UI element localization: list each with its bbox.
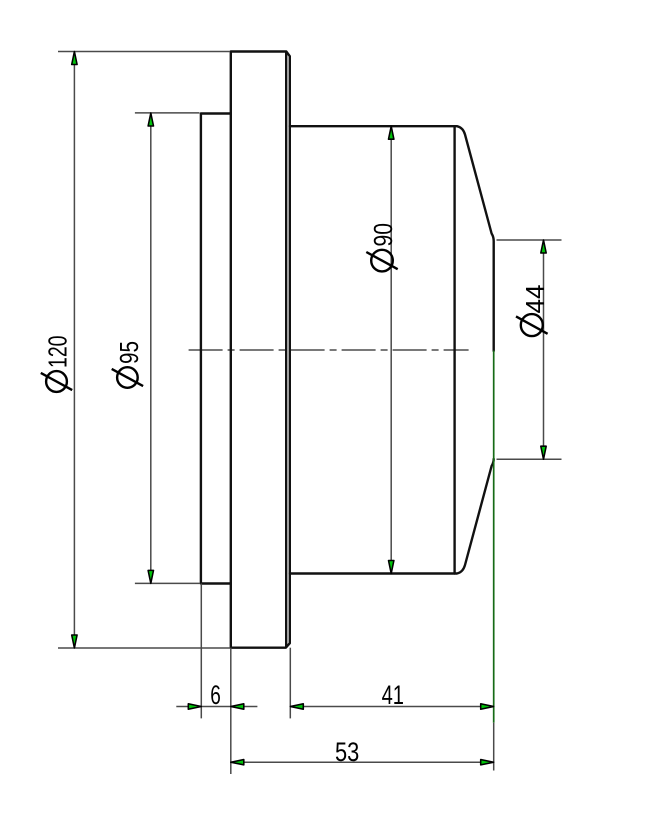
arrow 53 right (inside, pointing right) xyxy=(481,760,494,765)
dimension 6: extension lines below part xyxy=(176,584,257,775)
dimension Ø120: dimension line xyxy=(73,52,75,649)
svg-text:53: 53 xyxy=(335,737,359,767)
arrow Ø120 bottom xyxy=(72,635,77,648)
dimension 41: dimension line xyxy=(290,706,493,708)
arrow 6 right (outside, pointing left) xyxy=(231,704,244,709)
arrow Ø95 top xyxy=(148,113,153,126)
svg-text:44: 44 xyxy=(520,285,550,314)
arrow Ø120 top xyxy=(72,52,77,65)
flange disc outline (Ø120 plate) xyxy=(231,52,290,648)
label Ø120 xyxy=(41,336,73,392)
svg-text:41: 41 xyxy=(382,680,404,710)
label Ø44 xyxy=(516,285,550,337)
centerline (horizontal dash-dot axis) xyxy=(189,349,469,351)
arrow Ø90 bottom xyxy=(389,561,394,574)
label Ø90 xyxy=(366,223,398,271)
dimension 41: extension line from flange right xyxy=(289,648,291,719)
dimension Ø90: dimension line xyxy=(390,126,392,573)
step cylinder (Ø95) outline xyxy=(201,114,231,584)
dimension Ø44: extension lines xyxy=(497,240,562,459)
arrow 6 left (outside, pointing right) xyxy=(188,704,201,709)
green highlighted edge / extension line at part right end xyxy=(493,351,495,723)
cylinder-cone tangent edge xyxy=(453,126,455,573)
arrow Ø90 top xyxy=(389,126,394,139)
gray extension continuation to 53-dim xyxy=(493,723,495,771)
arrow Ø44 top xyxy=(541,240,546,253)
arrow Ø95 bottom xyxy=(148,570,153,583)
dimension 53: dimension line xyxy=(231,761,494,763)
svg-text:120: 120 xyxy=(43,336,73,369)
dimension Ø44: dimension line xyxy=(543,240,545,459)
dimension Ø95: dimension line xyxy=(150,113,152,583)
label Ø95 xyxy=(112,341,144,388)
dimension Ø95: extension lines xyxy=(135,113,200,584)
arrow 41 left (inside, pointing left) xyxy=(290,704,303,709)
svg-text:6: 6 xyxy=(210,680,221,710)
dimension 6: dimension line with outside tails xyxy=(176,706,257,708)
arrow 53 left (inside, pointing left) xyxy=(231,760,244,765)
svg-text:90: 90 xyxy=(368,223,398,247)
arrow 41 right (inside, pointing right) xyxy=(481,704,494,709)
dimension Ø120: extension lines xyxy=(58,52,230,649)
flange chamfer edge line xyxy=(285,53,287,647)
body cylinder (Ø90) with right cone outline xyxy=(290,126,494,573)
svg-text:95: 95 xyxy=(114,341,144,364)
arrow Ø44 bottom xyxy=(541,446,546,459)
